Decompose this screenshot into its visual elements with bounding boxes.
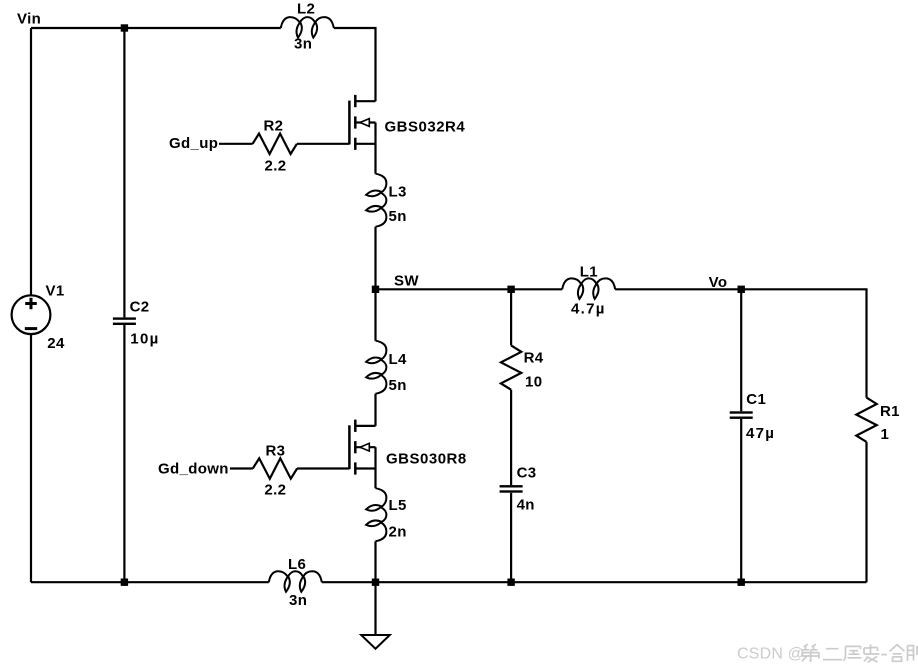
svg-text:Gd_up: Gd_up — [169, 135, 218, 152]
svg-text:V1: V1 — [46, 282, 65, 299]
svg-text:47µ: 47µ — [746, 425, 775, 442]
svg-text:2.2: 2.2 — [265, 158, 287, 175]
svg-text:L3: L3 — [389, 183, 407, 200]
svg-text:L4: L4 — [389, 351, 408, 368]
svg-text:CSDN @: CSDN @ — [737, 646, 804, 663]
svg-text:10µ: 10µ — [130, 330, 159, 347]
svg-text:24: 24 — [47, 335, 65, 352]
svg-text:GBS030R8: GBS030R8 — [386, 450, 467, 467]
svg-text:5n: 5n — [389, 377, 407, 394]
svg-text:C2: C2 — [130, 298, 150, 315]
svg-text:4.7µ: 4.7µ — [571, 300, 606, 317]
svg-text:R3: R3 — [266, 443, 286, 460]
svg-text:C3: C3 — [517, 464, 537, 481]
svg-text:L5: L5 — [389, 497, 407, 514]
svg-text:4n: 4n — [517, 497, 535, 514]
svg-text:3n: 3n — [294, 35, 312, 52]
svg-text:GBS032R4: GBS032R4 — [385, 119, 466, 136]
svg-text:SW: SW — [394, 273, 419, 290]
svg-text:Vo: Vo — [709, 274, 728, 291]
svg-text:R1: R1 — [880, 403, 900, 420]
svg-text:L1: L1 — [580, 264, 598, 281]
svg-text:Gd_down: Gd_down — [158, 460, 229, 477]
svg-text:10: 10 — [525, 374, 542, 391]
svg-text:R2: R2 — [264, 118, 284, 135]
svg-text:L6: L6 — [288, 556, 306, 573]
svg-text:1: 1 — [881, 426, 890, 443]
svg-text:Vin: Vin — [17, 11, 41, 28]
svg-text:R4: R4 — [524, 349, 544, 366]
svg-text:L2: L2 — [297, 1, 315, 18]
svg-text:2n: 2n — [389, 523, 407, 540]
svg-text:3n: 3n — [289, 592, 307, 609]
svg-text:5n: 5n — [389, 208, 407, 225]
svg-text:2.2: 2.2 — [264, 481, 286, 498]
svg-text:C1: C1 — [746, 391, 766, 408]
